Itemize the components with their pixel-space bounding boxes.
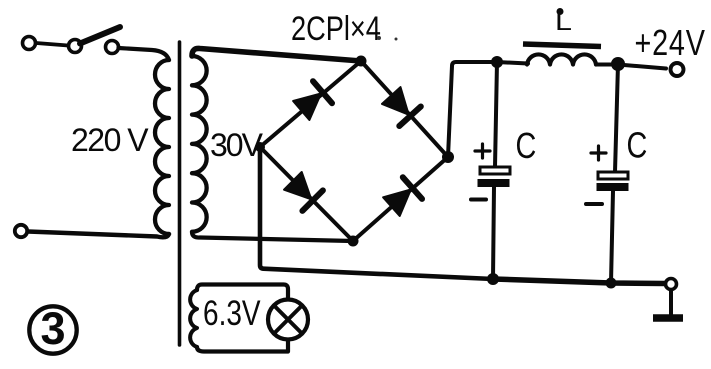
bridge side top-right wire bbox=[361, 61, 448, 157]
svg-text:3: 3 bbox=[40, 303, 65, 354]
capacitor C1 plus sign bbox=[475, 144, 490, 158]
input terminal bottom-left bbox=[15, 225, 27, 237]
capacitor C1 negative plate bbox=[478, 179, 510, 187]
capacitor C1 positive plate bbox=[480, 167, 510, 174]
wire secondary top to bridge top node bbox=[192, 48, 361, 61]
bridge side bottom-right wire bbox=[353, 157, 448, 241]
bridge side left-top wire bbox=[260, 61, 361, 147]
diode D2 top-right bbox=[382, 87, 421, 126]
switch S terminal 3 bbox=[106, 41, 119, 54]
capacitor C2 bottom lead bbox=[611, 191, 613, 283]
wire secondary bottom to bridge bottom node bbox=[192, 232, 353, 241]
wire switch to transformer primary top bbox=[119, 48, 170, 60]
node bridge left junction bbox=[255, 142, 265, 152]
svg-text:220 V: 220 V bbox=[71, 122, 149, 158]
ground symbol bbox=[653, 314, 683, 322]
switch S terminal 2 bbox=[69, 40, 82, 53]
svg-text:C: C bbox=[627, 124, 648, 165]
lamp indicator bbox=[268, 300, 308, 340]
wire 6.3V winding top to lamp bbox=[197, 285, 288, 301]
svg-text:C: C bbox=[516, 125, 537, 166]
wire bridge right node up to DC+ rail bbox=[448, 62, 497, 157]
wire bridge left node down to ground bus bbox=[260, 147, 493, 279]
bridge side left-bottom wire bbox=[260, 147, 353, 241]
node bridge top junction bbox=[356, 56, 367, 67]
node bus capacitor C2 junction bbox=[606, 278, 617, 289]
terminal +24V output bbox=[671, 63, 684, 76]
node rail right junction bbox=[611, 57, 625, 71]
capacitor C2 plus sign bbox=[591, 146, 606, 160]
svg-text:+24V: +24V bbox=[635, 22, 706, 63]
switch S blade bbox=[80, 27, 120, 44]
capacitor C1 minus sign bbox=[471, 198, 486, 202]
transformer T1 core bbox=[178, 42, 182, 345]
switch S terminal 1 bbox=[23, 37, 36, 50]
ink dot above L bbox=[557, 8, 564, 15]
wire terminal to ground bbox=[669, 290, 673, 315]
capacitor C2 top lead bbox=[615, 64, 618, 172]
transformer T1 secondary 30V winding bbox=[192, 56, 207, 232]
capacitor C2 minus sign bbox=[586, 202, 602, 206]
capacitor C2 positive plate bbox=[598, 172, 628, 179]
wire lamp bottom to 6.3V winding bbox=[197, 340, 288, 352]
diode D4 bottom-right bbox=[383, 177, 422, 216]
terminal output common bbox=[666, 279, 677, 290]
svg-text:6.3V: 6.3V bbox=[203, 293, 261, 333]
wire ground bus right section bbox=[493, 279, 665, 284]
node bus capacitor C1 junction bbox=[487, 273, 499, 285]
diode D1 top-left bbox=[293, 81, 332, 120]
transformer T1 primary winding bbox=[155, 60, 169, 234]
wire inductor to +24V terminal bbox=[596, 65, 666, 69]
capacitor C1 bottom lead bbox=[493, 187, 494, 279]
wire primary bottom to input terminal bbox=[28, 232, 169, 238]
node rail left junction bbox=[491, 56, 503, 68]
inductor L core bar bbox=[523, 44, 601, 47]
figure number 3 circle bbox=[29, 306, 76, 353]
capacitor C1 top lead bbox=[495, 62, 497, 167]
diode D3 bottom-left bbox=[284, 172, 323, 211]
node bridge bottom junction bbox=[348, 236, 359, 247]
inductor L winding bbox=[527, 54, 596, 64]
svg-text:30V: 30V bbox=[210, 127, 264, 163]
wire rail junction to inductor bbox=[497, 62, 528, 64]
transformer T1 tertiary 6.3V winding bbox=[190, 290, 197, 347]
node bridge right junction bbox=[442, 151, 454, 163]
ink specks after label bbox=[377, 36, 381, 40]
svg-text:2CPl×4: 2CPl×4 bbox=[291, 9, 381, 48]
capacitor C2 negative plate bbox=[597, 183, 629, 191]
wire switch link bbox=[36, 43, 68, 46]
